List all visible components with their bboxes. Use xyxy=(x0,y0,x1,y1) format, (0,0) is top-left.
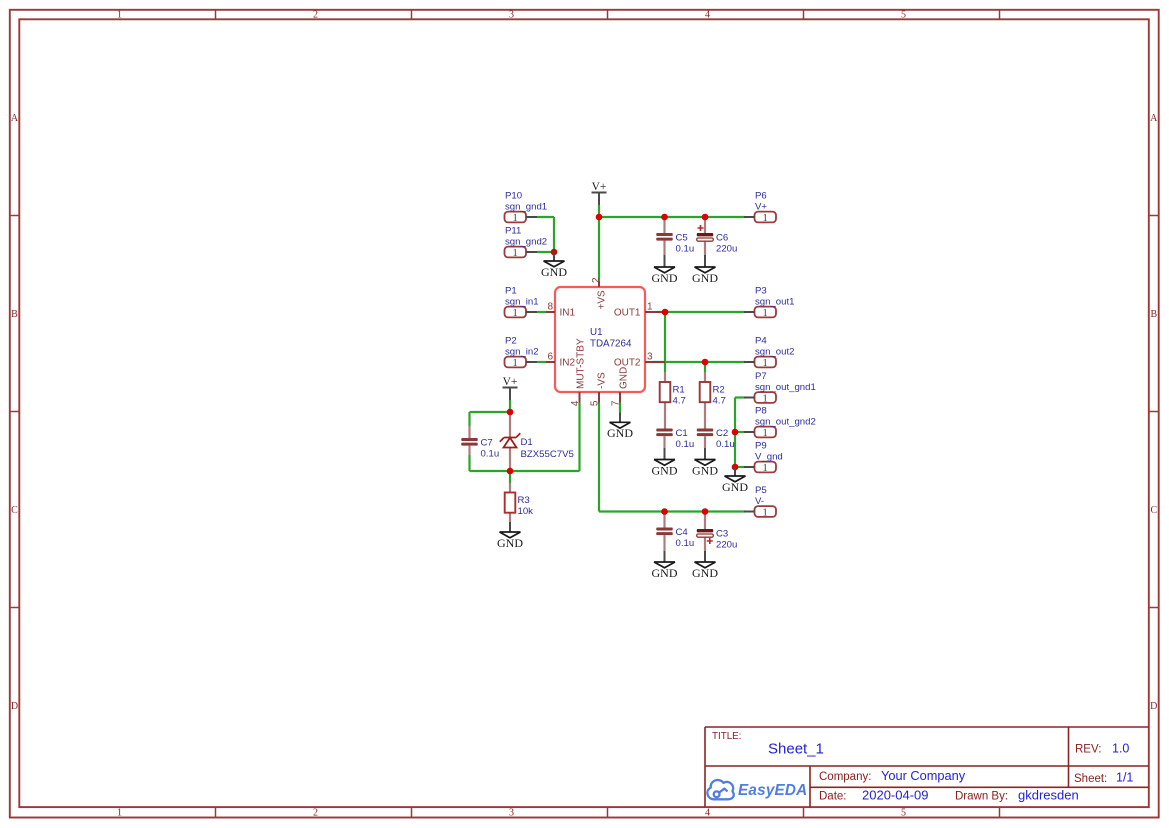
svg-text:8: 8 xyxy=(547,301,553,312)
svg-text:P11: P11 xyxy=(505,225,521,236)
svg-text:1: 1 xyxy=(117,9,122,20)
svg-text:P2: P2 xyxy=(505,335,517,346)
svg-text:sgn_gnd2: sgn_gnd2 xyxy=(505,236,547,247)
svg-text:sgn_out_gnd1: sgn_out_gnd1 xyxy=(755,382,816,393)
svg-text:0.1u: 0.1u xyxy=(481,449,500,460)
svg-text:GND: GND xyxy=(652,566,678,580)
capacitor C5 0.1u xyxy=(656,232,694,254)
wire V+ vertical to U1 pin2 xyxy=(598,205,600,282)
svg-text:sgn_in1: sgn_in1 xyxy=(505,296,539,307)
svg-text:GND: GND xyxy=(618,367,629,389)
svg-text:sgn_in2: sgn_in2 xyxy=(505,346,539,357)
svg-text:B: B xyxy=(1150,309,1157,320)
svg-text:220u: 220u xyxy=(716,540,737,551)
wire OUT2 to P4 xyxy=(652,361,745,363)
svg-text:sgn_out_gnd2: sgn_out_gnd2 xyxy=(755,416,816,427)
svg-text:TDA7264: TDA7264 xyxy=(590,339,632,350)
svg-text:REV:: REV: xyxy=(1075,744,1101,756)
svg-text:D: D xyxy=(1150,701,1157,712)
lead C2 bottom xyxy=(704,436,706,448)
svg-text:A: A xyxy=(11,113,19,124)
resistor R3 10k xyxy=(505,493,533,518)
svg-text:P10: P10 xyxy=(505,190,522,201)
U1 pin 1 OUT1 xyxy=(614,301,665,318)
svg-text:0.1u: 0.1u xyxy=(676,439,695,450)
svg-text:P3: P3 xyxy=(755,285,767,296)
svg-text:0.1u: 0.1u xyxy=(676,538,695,549)
svg-text:R1: R1 xyxy=(673,384,685,395)
lead C4 top xyxy=(663,512,665,528)
svg-text:P9: P9 xyxy=(755,440,767,451)
svg-text:1: 1 xyxy=(512,308,517,319)
lead C7 bottom xyxy=(468,446,470,455)
wire V+ rail horizontal xyxy=(599,216,745,218)
svg-text:sgn_out2: sgn_out2 xyxy=(755,346,794,357)
svg-text:Date:: Date: xyxy=(819,791,847,803)
connector P10 (sgn_gnd1) xyxy=(505,190,548,224)
svg-text:Drawn By:: Drawn By: xyxy=(955,791,1008,803)
wire P9 stub xyxy=(735,466,745,468)
svg-text:Sheet:: Sheet: xyxy=(1074,773,1107,785)
svg-text:EasyEDA: EasyEDA xyxy=(738,782,807,799)
svg-text:2: 2 xyxy=(591,277,602,283)
wire bottom horizontal of D1 loop xyxy=(470,470,580,472)
capacitor C7 0.1u xyxy=(461,437,499,459)
wire pin5 -VS down xyxy=(598,403,600,512)
lead D1 top xyxy=(509,412,511,437)
connector P5 (V-) xyxy=(744,485,776,519)
U1 pin 6 IN2 xyxy=(546,351,576,368)
svg-text:GND: GND xyxy=(652,463,678,477)
svg-text:P4: P4 xyxy=(755,335,767,346)
ground under R3 xyxy=(497,522,523,550)
ground under C6 xyxy=(692,255,718,285)
ruler row letters xyxy=(11,113,1158,712)
svg-text:220u: 220u xyxy=(716,244,737,255)
wire P1 to IN1 xyxy=(537,311,547,313)
svg-text:1: 1 xyxy=(512,248,517,259)
ruler column numbers xyxy=(117,9,906,818)
wire vertical P10-P11 xyxy=(553,217,555,252)
svg-text:1: 1 xyxy=(117,808,122,819)
U1 pin 5 -VS xyxy=(589,372,607,406)
connector P7 (sgn_out_gnd1) xyxy=(744,371,816,405)
svg-text:3: 3 xyxy=(509,9,514,20)
svg-text:sgn_out1: sgn_out1 xyxy=(755,296,794,307)
svg-text:C: C xyxy=(1150,505,1157,516)
U1 pin 7 GND xyxy=(610,367,629,406)
svg-text:P5: P5 xyxy=(755,485,767,496)
svg-text:1: 1 xyxy=(762,358,767,369)
EasyEDA logo xyxy=(707,780,807,799)
wire V- rail to P5 xyxy=(599,510,745,512)
svg-text:C6: C6 xyxy=(716,232,728,243)
wire P10 to corner xyxy=(537,216,554,218)
resistor R1 4.7 xyxy=(660,382,686,407)
wire C7 branch top vertical xyxy=(468,412,470,426)
power flag V+ left xyxy=(503,376,518,400)
svg-text:1: 1 xyxy=(647,301,653,312)
lead C4 bottom xyxy=(663,535,665,551)
svg-text:7: 7 xyxy=(610,400,621,406)
wire pin7 GND stub xyxy=(619,403,621,413)
svg-text:BZX55C7V5: BZX55C7V5 xyxy=(521,449,574,460)
lead R3 bottom xyxy=(509,513,511,522)
svg-text:C3: C3 xyxy=(716,528,728,539)
svg-text:C: C xyxy=(11,505,18,516)
connector P9 (V_gnd) xyxy=(744,440,783,474)
svg-text:TITLE:: TITLE: xyxy=(712,731,741,742)
ground under C3 xyxy=(692,551,718,580)
svg-text:GND: GND xyxy=(692,271,718,285)
svg-text:Company:: Company: xyxy=(819,771,871,783)
U1 pin 4 MUT-STBY xyxy=(570,338,587,406)
svg-text:D1: D1 xyxy=(521,437,533,448)
svg-text:R2: R2 xyxy=(713,384,725,395)
connector P8 (sgn_out_gnd2) xyxy=(744,405,816,439)
svg-text:1/1: 1/1 xyxy=(1116,771,1133,785)
svg-text:GND: GND xyxy=(692,463,718,477)
svg-text:4: 4 xyxy=(705,9,710,20)
diode D1 BZX55C7V5 (zener) xyxy=(500,433,574,460)
svg-text:1.0: 1.0 xyxy=(1112,742,1129,756)
svg-text:0.1u: 0.1u xyxy=(676,244,695,255)
svg-text:4.7: 4.7 xyxy=(673,396,686,407)
svg-text:Sheet_1: Sheet_1 xyxy=(768,741,824,758)
svg-text:GND: GND xyxy=(497,536,523,550)
svg-text:Your Company: Your Company xyxy=(881,768,966,783)
svg-text:P7: P7 xyxy=(755,371,767,382)
svg-text:GND: GND xyxy=(722,480,748,494)
connector P6 (V+) xyxy=(744,190,776,224)
op-amp U1 TDA7264 body xyxy=(555,287,645,392)
svg-text:B: B xyxy=(11,309,18,320)
svg-text:5: 5 xyxy=(901,808,906,819)
svg-text:V+: V+ xyxy=(592,181,607,193)
svg-text:1: 1 xyxy=(762,428,767,439)
svg-text:P6: P6 xyxy=(755,190,767,201)
svg-text:U1: U1 xyxy=(590,327,603,338)
wire junction to R3 xyxy=(509,471,511,483)
lead R3 top xyxy=(509,483,511,493)
svg-text:C1: C1 xyxy=(676,428,688,439)
svg-text:5: 5 xyxy=(901,9,906,20)
capacitor C1 0.1u xyxy=(656,428,694,450)
svg-text:1: 1 xyxy=(762,308,767,319)
ground under C4 xyxy=(652,551,678,580)
svg-text:4: 4 xyxy=(570,400,581,406)
lead R2 to C2 xyxy=(704,402,706,429)
lead R1 top xyxy=(664,372,666,382)
svg-text:1: 1 xyxy=(762,213,767,224)
capacitor C6 220u xyxy=(697,225,738,255)
wire OUT1 to P3 xyxy=(657,311,745,313)
capacitor C4 0.1u xyxy=(656,527,694,549)
svg-text:OUT1: OUT1 xyxy=(614,308,641,319)
svg-text:IN1: IN1 xyxy=(560,308,576,319)
wire left V+ down xyxy=(509,400,511,412)
wire P11 to junction xyxy=(537,251,554,253)
svg-text:GND: GND xyxy=(607,426,633,440)
lead C6 bottom xyxy=(704,242,706,256)
wire P2 to IN2 xyxy=(537,361,547,363)
svg-text:1: 1 xyxy=(762,463,767,474)
svg-text:V+: V+ xyxy=(755,201,767,212)
lead R1 to C1 xyxy=(664,402,666,429)
svg-text:C5: C5 xyxy=(676,232,688,243)
svg-text:GND: GND xyxy=(692,566,718,580)
lead C3 bottom xyxy=(704,538,706,552)
svg-text:1: 1 xyxy=(762,507,767,518)
U1 pin 3 OUT2 xyxy=(614,351,665,368)
svg-text:C2: C2 xyxy=(716,428,728,439)
ground under P11 xyxy=(541,252,567,279)
svg-text:1: 1 xyxy=(512,213,517,224)
wire C7 branch bottom vertical xyxy=(468,455,470,471)
wire P8 stub xyxy=(735,431,745,433)
connector P3 (sgn_out1) xyxy=(744,285,794,319)
power flag V+ top xyxy=(592,181,607,205)
svg-text:C7: C7 xyxy=(481,437,493,448)
svg-text:V-: V- xyxy=(755,496,764,507)
U1 pin 2 +VS xyxy=(591,277,607,310)
svg-text:A: A xyxy=(1150,113,1158,124)
connector P11 (sgn_gnd2) xyxy=(505,225,548,259)
lead C5 bottom xyxy=(663,241,665,256)
ground under C1 xyxy=(652,448,678,477)
wire junctions xyxy=(507,214,739,515)
svg-text:3: 3 xyxy=(647,351,653,362)
svg-text:GND: GND xyxy=(541,265,567,279)
svg-text:2: 2 xyxy=(313,808,318,819)
svg-text:gkdresden: gkdresden xyxy=(1018,788,1079,803)
svg-text:sgn_gnd1: sgn_gnd1 xyxy=(505,201,547,212)
wire V+ junction to C7 branch xyxy=(470,411,511,413)
lead C7 top xyxy=(468,426,470,438)
svg-text:+VS: +VS xyxy=(596,290,607,310)
capacitor C2 0.1u xyxy=(697,428,735,450)
U1 pin 8 IN1 xyxy=(546,301,576,318)
lead D1 bottom xyxy=(509,447,511,472)
svg-text:4.7: 4.7 xyxy=(713,396,726,407)
connector P4 (sgn_out2) xyxy=(744,335,794,369)
svg-text:1: 1 xyxy=(512,358,517,369)
connector P1 (sgn_in1) xyxy=(505,285,539,319)
svg-text:C4: C4 xyxy=(676,527,689,538)
ground under P9 xyxy=(722,467,748,494)
wire OUT2 down to R2 xyxy=(704,362,706,372)
svg-text:V+: V+ xyxy=(503,376,518,388)
lead C5 top xyxy=(663,217,665,233)
lead C1 bottom xyxy=(663,436,665,448)
svg-text:6: 6 xyxy=(547,351,553,362)
svg-text:P8: P8 xyxy=(755,405,767,416)
svg-text:1: 1 xyxy=(762,393,767,404)
svg-text:5: 5 xyxy=(589,400,600,406)
ground under U1 pin7 xyxy=(607,413,633,441)
wire OUT1 down to R1 xyxy=(664,312,666,372)
ground under C2 xyxy=(692,448,718,477)
svg-text:0.1u: 0.1u xyxy=(716,439,735,450)
svg-text:R3: R3 xyxy=(518,495,530,506)
svg-text:4: 4 xyxy=(705,808,710,819)
connector P2 (sgn_in2) xyxy=(505,335,539,369)
lead C3 top xyxy=(704,512,706,530)
svg-text:MUT-STBY: MUT-STBY xyxy=(575,338,586,389)
svg-text:GND: GND xyxy=(652,271,678,285)
svg-text:IN2: IN2 xyxy=(560,358,576,369)
wire vertical P7-P8-P9 xyxy=(734,398,736,468)
wire P7 stub xyxy=(735,396,745,398)
svg-text:3: 3 xyxy=(509,808,514,819)
svg-text:2: 2 xyxy=(313,9,318,20)
capacitor C3 220u xyxy=(697,528,738,550)
svg-text:10k: 10k xyxy=(518,506,534,517)
wire pin4 MUT-STBY down xyxy=(578,403,580,472)
lead C6 top xyxy=(704,217,706,233)
ground under C5 xyxy=(652,255,678,285)
svg-text:D: D xyxy=(11,701,18,712)
svg-text:V_gnd: V_gnd xyxy=(755,451,783,462)
title block lines xyxy=(705,727,1149,807)
svg-text:-VS: -VS xyxy=(596,372,607,389)
lead R2 top xyxy=(704,372,706,382)
svg-text:2020-04-09: 2020-04-09 xyxy=(862,788,929,803)
svg-text:P1: P1 xyxy=(505,285,517,296)
resistor R2 4.7 xyxy=(700,382,726,407)
